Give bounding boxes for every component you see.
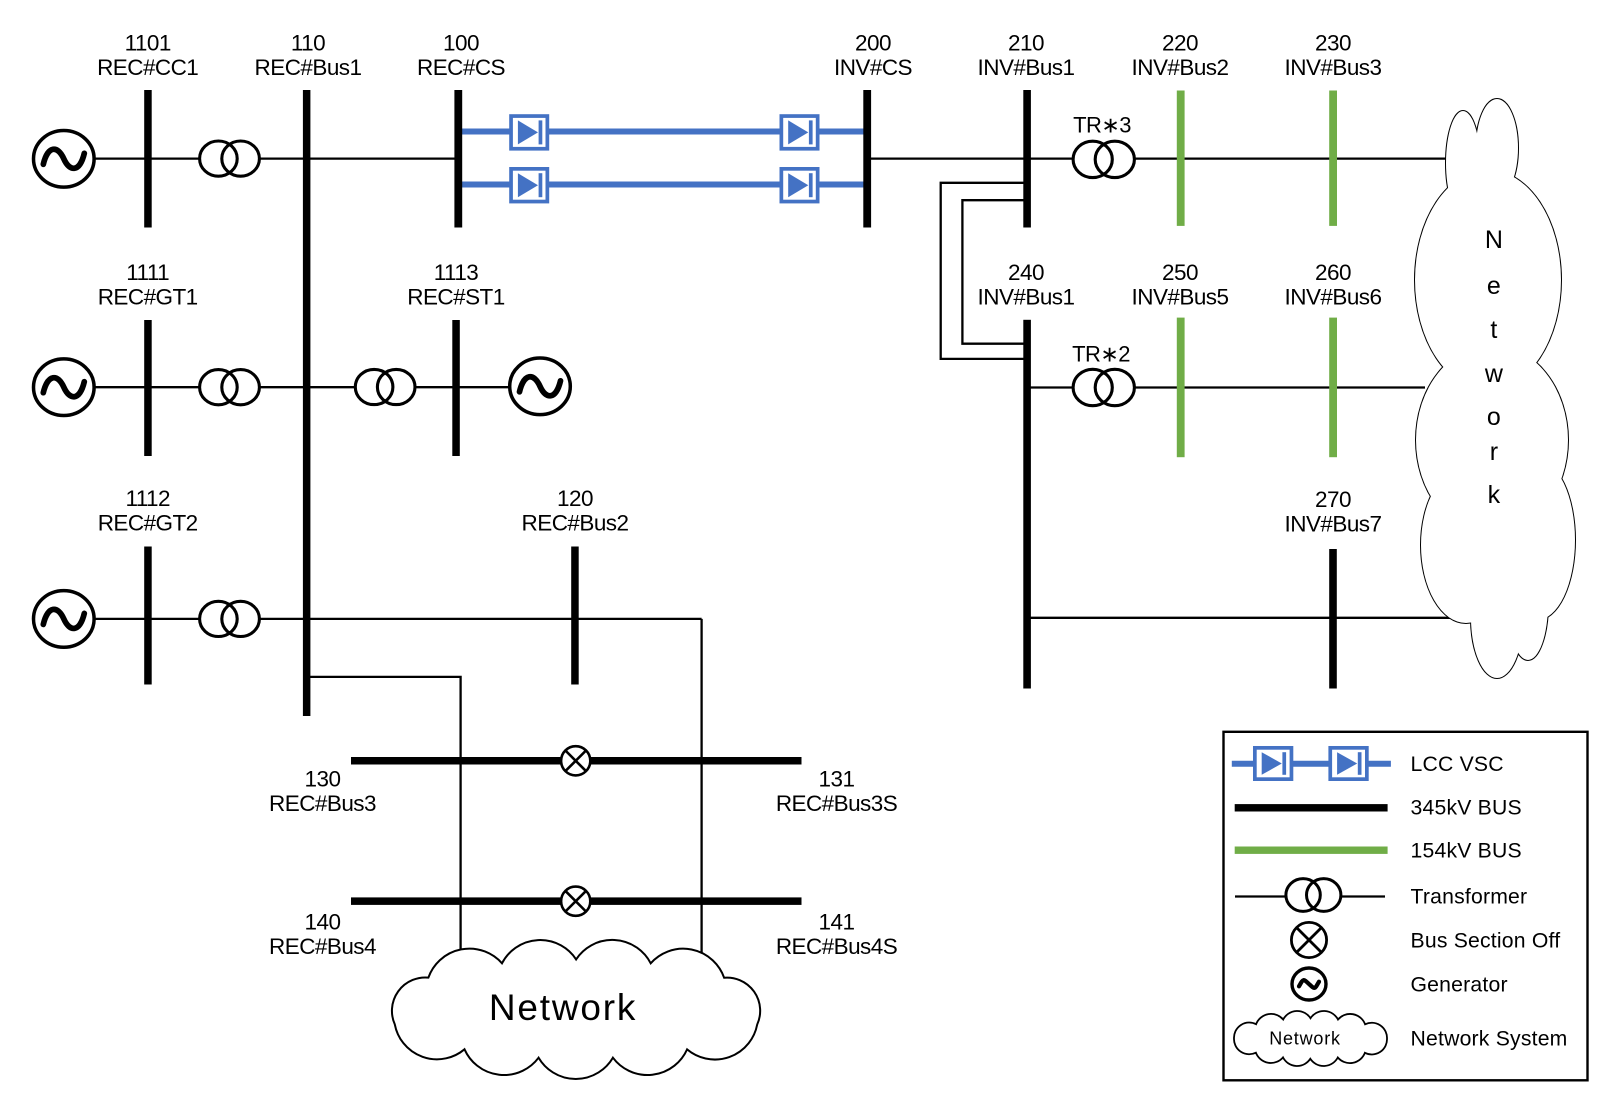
svg-text:w: w [1484, 360, 1504, 388]
legend transformer symbol [1286, 879, 1320, 912]
svg-text:1101: 1101 [125, 31, 171, 56]
transformer TR*3 (bus 210 to INV#Bus2) [1073, 141, 1112, 177]
svg-text:REC#Bus4S: REC#Bus4S [776, 934, 897, 959]
bus 260 INV#Bus6 (154kV green) [1329, 318, 1337, 458]
bus 130 REC#Bus3 (horizontal) [351, 757, 561, 765]
wire row1 rectifier: generator to REC#CS [95, 157, 458, 159]
svg-text:INV#Bus1: INV#Bus1 [978, 55, 1075, 80]
svg-text:INV#Bus1: INV#Bus1 [978, 285, 1075, 310]
svg-text:Bus Section Off: Bus Section Off [1411, 930, 1561, 953]
bus 1101 REC#CC1 [144, 90, 152, 228]
svg-text:k: k [1488, 481, 1501, 509]
bus 1112 REC#GT2 [144, 547, 152, 685]
svg-text:Network: Network [489, 987, 637, 1028]
svg-text:INV#Bus7: INV#Bus7 [1285, 512, 1382, 537]
wire HVDC pole 1 (blue) [461, 129, 866, 135]
legend 345kV BUS bar [1235, 804, 1388, 811]
svg-text:REC#ST1: REC#ST1 [407, 285, 504, 310]
LCC converter valve A2 (inverter pole 1) [781, 116, 817, 149]
bus 240 INV#Bus1 lower [1023, 320, 1031, 689]
generator G3 at bus 1112 [34, 591, 95, 648]
svg-text:250: 250 [1162, 260, 1198, 285]
wire row1 inverter: INV#CS to network cloud [868, 157, 1450, 159]
generator G4 at bus 1113 [510, 358, 571, 415]
svg-text:230: 230 [1315, 31, 1351, 56]
svg-text:141: 141 [819, 910, 855, 935]
wire row3 rectifier: generator through REC#Bus1 and REC#Bus2 [95, 618, 702, 620]
legend box [1224, 732, 1588, 1081]
wire loop inner between bus 210 and bus 240 [962, 200, 1026, 344]
svg-text:Network System: Network System [1411, 1028, 1568, 1051]
bus 270 INV#Bus7 [1329, 549, 1337, 689]
svg-text:Network: Network [1269, 1029, 1341, 1049]
bus 230 INV#Bus3 (154kV green) [1329, 91, 1337, 226]
bus 100 REC#CS [454, 90, 462, 228]
svg-text:REC#Bus3: REC#Bus3 [269, 791, 376, 816]
bus 200 INV#CS [863, 90, 871, 228]
LCC converter valve B2 (inverter pole 2) [781, 169, 817, 202]
svg-text:REC#Bus4: REC#Bus4 [269, 934, 376, 959]
bus 131 REC#Bus3S (horizontal) [591, 757, 802, 765]
svg-text:1113: 1113 [434, 260, 479, 285]
transformer T3 (REC#Bus1 to REC#ST1) [355, 369, 393, 404]
svg-text:220: 220 [1162, 31, 1198, 56]
wire HVDC pole 2 (blue) [461, 182, 866, 188]
svg-text:110: 110 [291, 31, 325, 56]
svg-text:INV#Bus2: INV#Bus2 [1132, 55, 1229, 80]
svg-text:Generator: Generator [1411, 974, 1508, 997]
svg-text:LCC VSC: LCC VSC [1411, 753, 1504, 776]
svg-text:260: 260 [1315, 260, 1351, 285]
svg-text:e: e [1487, 272, 1500, 300]
svg-text:Transformer: Transformer [1411, 886, 1528, 909]
generator G1 at bus 1101 [34, 131, 95, 188]
LCC converter valve B1 (rectifier pole 2) [511, 169, 547, 202]
transformer T1 (gen 1101 to REC#Bus1) [200, 141, 238, 176]
wire row2 rectifier: generator to REC#ST1 generator [95, 386, 512, 388]
legend 154kV BUS bar [1235, 847, 1388, 854]
svg-text:INV#Bus3: INV#Bus3 [1285, 55, 1382, 80]
svg-text:100: 100 [443, 31, 479, 56]
legend bus section off symbol [1291, 922, 1326, 957]
svg-text:TR∗2: TR∗2 [1072, 342, 1130, 367]
svg-text:270: 270 [1315, 487, 1351, 512]
svg-text:o: o [1487, 403, 1500, 431]
wire loop outer between bus 210 and bus 240 [941, 183, 1026, 359]
svg-text:200: 200 [855, 31, 891, 56]
svg-text:210: 210 [1008, 31, 1044, 56]
bus 141 REC#Bus4S (horizontal) [591, 897, 802, 905]
svg-text:131: 131 [819, 767, 855, 792]
bus 110 REC#Bus1 [303, 90, 311, 716]
wire from REC#Bus2 line down to REC#Bus3S/REC#Bus4S [700, 619, 702, 965]
svg-text:130: 130 [305, 767, 341, 792]
transformer T4 (gen 1112 to REC#Bus1) [200, 601, 238, 636]
bus 140 REC#Bus4 (horizontal) [351, 897, 561, 905]
bus section off switch between 140 and 141 [561, 887, 590, 916]
legend generator symbol [1292, 968, 1326, 1000]
svg-text:1112: 1112 [125, 486, 170, 511]
svg-text:240: 240 [1008, 260, 1044, 285]
svg-text:REC#Bus2: REC#Bus2 [522, 511, 629, 536]
network cloud bottom (rectifier side) [392, 940, 760, 1079]
legend LCC converter valve 1 [1255, 748, 1292, 779]
bus 250 INV#Bus5 (154kV green) [1177, 318, 1185, 458]
svg-text:REC#Bus3S: REC#Bus3S [776, 791, 897, 816]
svg-text:REC#CC1: REC#CC1 [97, 55, 198, 80]
svg-text:REC#GT1: REC#GT1 [98, 285, 198, 310]
legend network cloud [1234, 1011, 1387, 1066]
legend LCC converter valve 2 [1330, 748, 1367, 779]
svg-text:REC#GT2: REC#GT2 [98, 511, 198, 536]
wire branch from REC#Bus1 toward REC#Bus3 [306, 677, 461, 965]
bus section off switch between 130 and 131 [561, 746, 590, 775]
network cloud right (inverter side) [1446, 111, 1480, 215]
bus 1113 REC#ST1 [452, 320, 460, 456]
svg-text:TR∗3: TR∗3 [1073, 113, 1131, 138]
svg-text:t: t [1490, 316, 1497, 344]
svg-text:120: 120 [557, 486, 593, 511]
wire row3 inverter: bus 240 to INV#Bus7 and network cloud [1027, 617, 1470, 619]
generator G2 at bus 1111 [34, 359, 95, 416]
svg-text:INV#CS: INV#CS [834, 55, 912, 80]
LCC converter valve A1 (rectifier pole 1) [511, 116, 547, 149]
svg-text:345kV BUS: 345kV BUS [1411, 797, 1522, 820]
svg-text:INV#Bus6: INV#Bus6 [1285, 285, 1382, 310]
transformer TR*2 (bus 240 to INV#Bus5) [1073, 369, 1112, 405]
legend LCC VSC wire [1232, 761, 1391, 767]
svg-text:REC#Bus1: REC#Bus1 [255, 55, 362, 80]
bus 1111 REC#GT1 [144, 320, 152, 456]
svg-text:N: N [1485, 226, 1503, 254]
wire row2 inverter: INV bus 240 to network cloud [1027, 386, 1425, 388]
svg-text:154kV BUS: 154kV BUS [1411, 840, 1522, 863]
bus 120 REC#Bus2 [571, 547, 579, 685]
svg-text:r: r [1490, 438, 1498, 466]
legend transformer wire [1235, 895, 1385, 897]
transformer T2 (gen 1111 to REC#Bus1) [200, 370, 238, 405]
svg-text:140: 140 [305, 910, 341, 935]
svg-text:REC#CS: REC#CS [417, 55, 505, 80]
bus 220 INV#Bus2 (154kV green) [1177, 91, 1185, 226]
bus 210 INV#Bus1 upper [1023, 90, 1031, 228]
svg-text:1111: 1111 [126, 260, 169, 285]
svg-text:INV#Bus5: INV#Bus5 [1132, 285, 1229, 310]
